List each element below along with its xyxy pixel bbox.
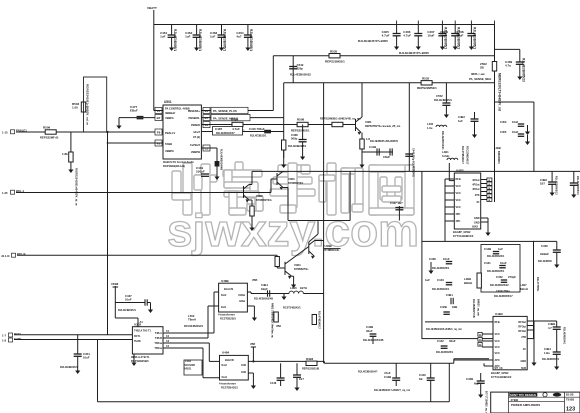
svg-text:1B?: 1B? bbox=[540, 182, 545, 186]
module box top right bbox=[495, 102, 534, 171]
svg-text:10uF: 10uF bbox=[83, 356, 90, 360]
ground C45B bbox=[480, 383, 482, 394]
svg-text:1-8: 1-8 bbox=[2, 339, 6, 343]
capacitor C442 33uF bbox=[436, 339, 456, 354]
svg-text:RCST2B2B/1: RCST2B2B/1 bbox=[220, 317, 236, 321]
svg-text:1B?: 1B? bbox=[299, 377, 304, 381]
svg-text:VCC: VCC bbox=[456, 185, 461, 188]
svg-text:RJL4E4B024/1: RJL4E4B024/1 bbox=[487, 255, 505, 258]
svg-text:270pF: 270pF bbox=[508, 275, 516, 279]
capacitor C43B 33uF bbox=[363, 325, 384, 344]
svg-text:RCC3Z4B343/17: RCC3Z4B343/17 bbox=[466, 146, 469, 165]
capacitor C455 bbox=[500, 130, 524, 136]
wire emitter caps bbox=[362, 151, 393, 153]
svg-text:1BBuF: 1BBuF bbox=[540, 252, 549, 256]
resistor R4B3 bbox=[302, 357, 319, 371]
svg-text:E8: E8 bbox=[205, 123, 209, 127]
svg-text:C41B: C41B bbox=[369, 145, 376, 149]
svg-text:L4B6: L4B6 bbox=[290, 286, 297, 290]
svg-text:RCST2B43/21: RCST2B43/21 bbox=[221, 386, 238, 390]
svg-text:T4Bne: T4Bne bbox=[154, 347, 162, 350]
capacitor C45B bbox=[466, 373, 487, 413]
svg-text:RJL4E4B024/1?+B4B2?_nq_nm: RJL4E4B024/1?+B4B2?_nq_nm bbox=[374, 389, 410, 392]
svg-text:NqF: NqF bbox=[474, 381, 480, 385]
svg-text:R508: R508 bbox=[297, 118, 305, 122]
svg-text:4FOut: 4FOut bbox=[472, 184, 479, 187]
svg-text:U484: U484 bbox=[222, 351, 230, 355]
capacitor C454 bbox=[60, 335, 90, 369]
capacitor C4B1 bbox=[446, 293, 453, 304]
capacitor C464 bbox=[236, 25, 253, 52]
ground C426 bbox=[556, 252, 558, 264]
svg-text:RJL4E4B024/1: RJL4E4B024/1 bbox=[563, 327, 566, 345]
svg-text:V482: V482 bbox=[256, 194, 263, 198]
svg-text:RJL4E3B005+5B+B4B3V: RJL4E3B005+5B+B4B3V bbox=[370, 140, 398, 143]
wire pin C1 down bbox=[201, 147, 217, 149]
svg-text:1B?H: 1B?H bbox=[300, 286, 307, 290]
svg-text:RCTL: RCTL bbox=[14, 332, 22, 336]
svg-text:4-transformer: 4-transformer bbox=[218, 313, 235, 317]
svg-text:REPS22M52/1: REPS22M52/1 bbox=[325, 60, 345, 64]
svg-text:C426: C426 bbox=[541, 244, 548, 248]
svg-text:VCC: VCC bbox=[495, 340, 500, 343]
svg-text:C4B4: C4B4 bbox=[261, 283, 268, 287]
transformer T1 bbox=[218, 279, 247, 321]
svg-text:C455: C455 bbox=[500, 130, 507, 134]
svg-text:C42B: C42B bbox=[440, 305, 447, 309]
svg-text:BGA8P_GPB2: BGA8P_GPB2 bbox=[453, 230, 471, 234]
ground C454 bbox=[77, 356, 79, 370]
svg-text:R506: R506 bbox=[43, 126, 51, 130]
svg-text:VBBFb: VBBFb bbox=[165, 116, 174, 120]
watermark bbox=[172, 162, 414, 215]
svg-text:C8uF: C8uF bbox=[383, 155, 390, 159]
title block bbox=[491, 392, 580, 413]
capacitor C552 bbox=[434, 83, 452, 118]
svg-text:RJL4E3B005/23: RJL4E3B005/23 bbox=[521, 58, 525, 82]
svg-text:C487: C487 bbox=[215, 127, 223, 131]
svg-text:T8mH: T8mH bbox=[188, 318, 196, 322]
resistor R508 bbox=[291, 118, 310, 133]
svg-text:RJL4E4B024/1B+B4B2r_nq_nm: RJL4E4B024/1B+B4B2r_nq_nm bbox=[426, 328, 462, 331]
wire BKL1 bbox=[16, 192, 244, 194]
svg-text:2TB: 2TB bbox=[475, 194, 480, 197]
svg-text:C447 1B?: C447 1B? bbox=[390, 201, 403, 205]
capacitor C445 on V409 bbox=[405, 148, 414, 178]
svg-text:1uF: 1uF bbox=[185, 35, 191, 39]
svg-text:C4B4: C4B4 bbox=[544, 347, 551, 351]
wire U403 right pins bbox=[527, 321, 534, 354]
capacitor C44B 47uF bbox=[358, 363, 400, 386]
svg-text:C44B: C44B bbox=[484, 247, 491, 251]
pin E8 U501 bbox=[203, 122, 210, 128]
svg-text:R535: R535 bbox=[330, 50, 338, 54]
svg-text:10uF: 10uF bbox=[427, 34, 434, 38]
svg-text:RJL4E4B025/22: RJL4E4B025/22 bbox=[490, 284, 509, 287]
svg-text:33uF: 33uF bbox=[366, 329, 373, 333]
pads U402 right bbox=[481, 178, 492, 202]
svg-text:RJL4E3B005/1: RJL4E3B005/1 bbox=[198, 29, 202, 51]
svg-text:VBBPA: VBBPA bbox=[165, 149, 174, 153]
svg-text:L503: L503 bbox=[185, 359, 191, 363]
wire T1 out top bbox=[247, 291, 251, 293]
svg-text:Dot2: Dot2 bbox=[221, 294, 227, 297]
svg-text:1BB: 1BB bbox=[452, 305, 457, 309]
svg-text:100uF: 100uF bbox=[196, 170, 205, 174]
inductor L503 bbox=[184, 359, 202, 375]
svg-text:123: 123 bbox=[566, 407, 575, 413]
svg-text:VBB: VBB bbox=[252, 279, 257, 282]
svg-text:RJL4E3B23/1: RJL4E3B23/1 bbox=[250, 134, 267, 138]
svg-text:POWER AMPLIFIERS: POWER AMPLIFIERS bbox=[511, 403, 540, 407]
svg-text:InBal: InBal bbox=[239, 300, 245, 303]
svg-text:VB8: VB8 bbox=[276, 325, 281, 328]
svg-text:L4B7: L4B7 bbox=[520, 283, 527, 287]
svg-text:C438: C438 bbox=[429, 257, 436, 261]
svg-text:T4B.A: T4B.A bbox=[155, 332, 162, 335]
resistor R503 bbox=[72, 102, 86, 112]
ground C452a bbox=[474, 126, 476, 135]
svg-text:EBuF: EBuF bbox=[130, 109, 138, 113]
capacitor C4B4 T1 bbox=[254, 283, 273, 301]
svg-text:VCC: VCC bbox=[495, 333, 500, 336]
svg-text:R532: R532 bbox=[422, 77, 430, 81]
svg-text:RJL4E3B005/1: RJL4E3B005/1 bbox=[223, 29, 227, 51]
svg-text:REPS22M52/1: REPS22M52/1 bbox=[417, 86, 437, 90]
svg-text:1uF: 1uF bbox=[425, 278, 430, 282]
svg-text:PBSED: PBSED bbox=[191, 123, 200, 127]
wire F2 bbox=[107, 142, 163, 144]
wire T1 feed 2 bbox=[163, 337, 208, 339]
svg-text:T4Bna: T4Bna bbox=[154, 342, 162, 345]
transistor V482 bbox=[244, 171, 272, 202]
svg-text:C4B8: C4B8 bbox=[540, 178, 547, 182]
svg-text:1.Bu: 1.Bu bbox=[544, 351, 550, 355]
svg-text:TB-BB: TB-BB bbox=[566, 398, 574, 402]
svg-text:B4B2Y_nq_nm: B4B2Y_nq_nm bbox=[477, 299, 480, 316]
wire V421 box link bbox=[421, 171, 423, 241]
ground C468 bbox=[302, 148, 304, 157]
svg-text:RJL4E3B005/1: RJL4E3B005/1 bbox=[473, 27, 477, 49]
resistor R447 bbox=[275, 255, 279, 268]
wire T1 out bottom bbox=[247, 305, 254, 307]
wire H3 rail bbox=[273, 55, 494, 57]
svg-text:PA_SENSE_PLUS: PA_SENSE_PLUS bbox=[213, 109, 237, 113]
svg-text:1-25: 1-25 bbox=[2, 191, 8, 195]
svg-text:RJL4E4B025/1: RJL4E4B025/1 bbox=[118, 308, 136, 312]
svg-text:500p: 500p bbox=[291, 137, 298, 141]
svg-text:TH3N: TH3N bbox=[134, 340, 141, 343]
svg-text:RCC324B: RCC324B bbox=[184, 364, 195, 367]
resistor R484 bbox=[226, 118, 245, 133]
svg-text:PBSENS+: PBSENS+ bbox=[188, 109, 201, 113]
svg-text:BHLVR: BHLVR bbox=[225, 358, 234, 362]
capacitor C41C bbox=[383, 148, 392, 159]
svg-text:bEuT: bEuT bbox=[194, 130, 201, 134]
resistor R507 1.8k bbox=[62, 132, 79, 206]
transistor V483 bbox=[244, 171, 304, 192]
svg-text:VCC: VCC bbox=[456, 192, 461, 195]
svg-text:U4B2: U4B2 bbox=[456, 169, 464, 173]
svg-text:220p: 220p bbox=[297, 66, 304, 70]
wire V350 up bbox=[349, 171, 351, 220]
IC U302 bbox=[131, 323, 163, 364]
svg-text:L400: L400 bbox=[427, 122, 434, 126]
svg-text:4-transformer: 4-transformer bbox=[219, 382, 236, 386]
svg-text:4FOut: 4FOut bbox=[472, 179, 479, 182]
svg-text:V481: V481 bbox=[365, 120, 372, 124]
svg-text:4C: 4C bbox=[523, 348, 526, 351]
svg-text:R4B2 (TB8R24B)+14mOhm_nu: R4B2 (TB8R24B)+14mOhm_nu bbox=[271, 303, 274, 338]
ground U302 bbox=[133, 354, 135, 363]
inductor L4BB2 bbox=[494, 146, 501, 165]
capacitor C44B top bbox=[484, 247, 505, 258]
svg-text:RJL4E4B4T/4T+B005: RJL4E4B4T/4T+B005 bbox=[358, 39, 388, 43]
ground T1 wire bbox=[283, 294, 285, 297]
svg-text:RCST24B343/1: RCST24B343/1 bbox=[283, 307, 301, 310]
label C487 bbox=[213, 127, 243, 136]
resistor R532 bbox=[417, 77, 437, 91]
capacitor C461 bbox=[160, 25, 177, 52]
svg-text:4u7: 4u7 bbox=[236, 35, 242, 39]
wire P4 bbox=[201, 131, 283, 133]
svg-text:RFIn: RFIn bbox=[456, 178, 462, 181]
svg-text:B4B1B4B/1: B4B1B4B/1 bbox=[497, 151, 500, 165]
svg-text:MBRS130LT3+B4B3V_nd: MBRS130LT3+B4B3V_nd bbox=[497, 73, 501, 111]
svg-text:F8: F8 bbox=[157, 131, 161, 135]
zener Z502 bbox=[469, 62, 501, 111]
svg-text:VBBPB: VBBPB bbox=[191, 150, 200, 154]
ground C453 bbox=[527, 125, 529, 132]
svg-text:PBALLV: PBALLV bbox=[165, 131, 175, 135]
svg-text:4PC: 4PC bbox=[456, 213, 461, 216]
svg-text:C443: C443 bbox=[437, 278, 444, 282]
svg-text:10nF: 10nF bbox=[125, 298, 132, 302]
wire TH3N bbox=[14, 339, 132, 341]
pin C1 U501 bbox=[203, 145, 210, 151]
pin B7 U501 bbox=[155, 115, 162, 121]
wire P3 drive bbox=[201, 124, 355, 126]
power net VBB T2 bbox=[250, 343, 256, 363]
svg-text:RJL4T4B343/17: RJL4T4B343/17 bbox=[318, 311, 321, 329]
ground V484 emitter bbox=[291, 276, 296, 288]
connector J4.1-N BKLB bbox=[1, 252, 26, 258]
svg-text:RJL4E4B025/1: RJL4E4B025/1 bbox=[432, 267, 450, 270]
svg-text:RFIn: RFIn bbox=[495, 321, 501, 324]
wire U403 RFIn bbox=[425, 321, 493, 323]
capacitor C44C bbox=[374, 363, 435, 402]
inductor L4B6 bbox=[283, 286, 324, 310]
svg-text:APC: APC bbox=[495, 359, 500, 362]
svg-text:R484: R484 bbox=[231, 118, 239, 122]
svg-text:C452: C452 bbox=[496, 275, 503, 279]
wire U403 vcc pins bbox=[478, 333, 493, 348]
svg-text:RCC324B343/21: RCC324B343/21 bbox=[184, 325, 204, 328]
capacitor C438 bbox=[428, 257, 452, 274]
wire U402 to box bbox=[444, 221, 446, 241]
svg-text:PBSENS-: PBSENS- bbox=[188, 116, 200, 120]
inductor L4BB bbox=[464, 273, 481, 288]
svg-text:AT-(k): AT-(k) bbox=[193, 135, 200, 139]
capacitor C469 bbox=[505, 58, 525, 82]
connector 1-25 BKL1 bbox=[2, 189, 25, 195]
wire T2 feed 2 bbox=[163, 347, 203, 349]
svg-text:IN-BUS PA Control Audio: IN-BUS PA Control Audio bbox=[163, 160, 194, 164]
svg-text:C442: C442 bbox=[437, 339, 444, 343]
capacitor C437 bbox=[115, 294, 147, 312]
svg-text:KYT1G1B4B01/2: KYT1G1B4B01/2 bbox=[453, 234, 474, 238]
capacitor C448b bbox=[293, 363, 304, 381]
svg-text:1uF: 1uF bbox=[160, 35, 166, 39]
wire U403 APC bbox=[454, 359, 493, 361]
svg-text:CvPBuT: CvPBuT bbox=[190, 143, 201, 147]
svg-text:U48B: U48B bbox=[221, 279, 230, 283]
wire U402 gnd bbox=[481, 218, 488, 226]
svg-text:REPS2TB2T4+cascade_2B_nm: REPS2TB2T4+cascade_2B_nm bbox=[365, 125, 400, 128]
ground C448b bbox=[296, 377, 298, 387]
capacitor C463 bbox=[210, 25, 227, 52]
svg-text:C45B: C45B bbox=[466, 377, 473, 381]
svg-text:1-7: 1-7 bbox=[2, 334, 6, 338]
svg-text:Out1: Out1 bbox=[222, 376, 228, 379]
svg-text:1BmH: 1BmH bbox=[520, 287, 528, 291]
svg-text:BYNBB2T3/+: BYNBB2T3/+ bbox=[294, 268, 309, 271]
module box PA match bbox=[422, 241, 534, 338]
svg-text:RJL4E4B024/4B: RJL4E4B024/4B bbox=[219, 149, 223, 170]
wire pin B7 to C477 bbox=[119, 117, 155, 119]
svg-text:1.00: 1.00 bbox=[72, 106, 78, 110]
svg-text:RJL4E4B025/1: RJL4E4B025/1 bbox=[487, 270, 505, 273]
svg-text:OnB: OnB bbox=[241, 364, 246, 367]
capacitor C431 bbox=[484, 261, 507, 273]
svg-text:22uF: 22uF bbox=[456, 34, 463, 38]
svg-text:C416 700uF: C416 700uF bbox=[249, 127, 265, 131]
wire rail A riser bbox=[453, 359, 455, 364]
svg-text:1BqF: 1BqF bbox=[261, 287, 268, 291]
capacitor C418 polar bbox=[215, 149, 224, 170]
svg-text:C45B 25Bp: C45B 25Bp bbox=[496, 289, 510, 293]
svg-text:sjwxzy.com: sjwxzy.com bbox=[167, 205, 419, 256]
svg-text:10nF: 10nF bbox=[443, 257, 450, 261]
svg-text:RJL4E3B005/1: RJL4E3B005/1 bbox=[173, 29, 177, 51]
svg-text:RJL4E4B024/47: RJL4E4B024/47 bbox=[216, 132, 235, 135]
svg-text:VBATT: VBATT bbox=[147, 6, 157, 10]
wire VFB8 to A1 bbox=[115, 317, 138, 319]
svg-text:C4B2: C4B2 bbox=[458, 115, 465, 119]
ground C477 bbox=[118, 118, 120, 126]
pin F8 U501 bbox=[155, 129, 162, 135]
ground C4B9 bbox=[573, 185, 575, 194]
svg-text:SUB: SUB bbox=[521, 368, 526, 370]
svg-text:1.0u: 1.0u bbox=[427, 126, 433, 130]
svg-text:4FOut: 4FOut bbox=[472, 188, 479, 191]
svg-text:C445 220p RJL4E3B24/1: C445 220p RJL4E3B24/1 bbox=[412, 148, 415, 178]
capacitor C4BB right bbox=[534, 321, 566, 345]
wire V97 bbox=[97, 340, 99, 402]
svg-text:1-15: 1-15 bbox=[2, 130, 8, 134]
svg-text:VCC: VCC bbox=[456, 199, 461, 202]
ground C437 bbox=[147, 303, 153, 314]
inductor L400 bbox=[427, 122, 447, 150]
svg-text:B??1T1B4B2/_nq_nm: B??1T1B4B2/_nq_nm bbox=[484, 391, 487, 413]
svg-text:BGA8P_GPB2: BGA8P_GPB2 bbox=[491, 371, 509, 375]
wire U402 left pins bbox=[445, 179, 454, 221]
svg-text:BYNBB1G3/+: BYNBB1G3/+ bbox=[325, 249, 341, 252]
svg-text:U501: U501 bbox=[164, 100, 172, 104]
svg-text:RCTL: RCTL bbox=[134, 335, 141, 338]
resistor R536 bbox=[320, 117, 361, 127]
capacitor C4B4 bbox=[542, 329, 561, 361]
svg-text:1uF: 1uF bbox=[498, 247, 503, 251]
wire bus right corner bbox=[494, 25, 496, 172]
power net VFB8 bbox=[111, 282, 119, 318]
wire T1 feed 1 bbox=[163, 332, 214, 334]
pin E7 U501 bbox=[203, 115, 210, 121]
inductor L4B7 bbox=[520, 277, 539, 292]
label rotated box texts bbox=[426, 299, 480, 331]
connector 1-8 TH3N bbox=[2, 337, 21, 343]
svg-text:RJL4E3B005/13: RJL4E3B005/13 bbox=[555, 176, 558, 195]
svg-text:C4B1: C4B1 bbox=[446, 293, 453, 297]
svg-text:343/21: 343/21 bbox=[184, 368, 192, 371]
wire V483 emitter down bbox=[283, 187, 288, 189]
svg-text:10uF: 10uF bbox=[512, 130, 519, 134]
svg-text:GND: GND bbox=[474, 222, 480, 225]
resistor R4E emitter bbox=[360, 133, 371, 153]
capacitor C467 bbox=[427, 25, 447, 51]
wire PA_SENSE_PLUS bbox=[201, 110, 273, 112]
ground T1 bottom bbox=[253, 306, 255, 318]
resistor R4B5 bbox=[312, 311, 320, 329]
wire rail A bbox=[324, 362, 453, 364]
svg-text:RJL4E3B005/13: RJL4E3B005/13 bbox=[576, 176, 579, 195]
svg-text:1uF: 1uF bbox=[210, 35, 216, 39]
pin 15 U501 bbox=[155, 108, 162, 114]
svg-text:RJL4E3B2B5/1: RJL4E3B2B5/1 bbox=[288, 144, 307, 148]
pin E6 U501 bbox=[203, 108, 210, 114]
svg-text:REPS22MF+B: REPS22MF+B bbox=[40, 136, 58, 140]
wire Y220 bbox=[288, 220, 350, 222]
svg-text:BALUN: BALUN bbox=[224, 287, 233, 291]
svg-text:RGP1B1B(B14+B): RGP1B1B(B14+B) bbox=[163, 164, 185, 168]
svg-text:RJL4E3B005/32: RJL4E3B005/32 bbox=[290, 73, 311, 77]
svg-text:PA_SENSE_NEG: PA_SENSE_NEG bbox=[469, 77, 491, 81]
capacitor C466 bbox=[403, 25, 422, 51]
svg-text:RGRS2241/B1+B4B3V_id_m: RGRS2241/B1+B4B3V_id_m bbox=[75, 168, 79, 206]
ground V6 bbox=[283, 150, 285, 165]
svg-text:RJL4E3B00: RJL4E3B00 bbox=[538, 260, 552, 263]
svg-text:U302: U302 bbox=[134, 323, 142, 327]
svg-text:C4BB: C4BB bbox=[548, 322, 555, 326]
wire long Y171 bbox=[252, 170, 580, 172]
inductor L401 bbox=[442, 146, 469, 165]
svg-text:J4.1-N: J4.1-N bbox=[1, 254, 9, 258]
capacitor C549 bbox=[289, 56, 311, 83]
svg-text:4.7u: 4.7u bbox=[505, 64, 511, 68]
wire PABLE1 bbox=[16, 131, 163, 133]
resistor V482 emitter bbox=[249, 200, 254, 220]
svg-text:KYT1G1B4B01/2: KYT1G1B4B01/2 bbox=[491, 375, 512, 379]
svg-text:VFB8: VFB8 bbox=[111, 282, 119, 286]
svg-text:RJL4B3B22Y/1B: RJL4B3B22Y/1B bbox=[472, 299, 475, 318]
svg-text:B1-2B: B1-2B bbox=[566, 392, 574, 396]
svg-text:R4B3: R4B3 bbox=[306, 357, 314, 361]
ground U403 right bbox=[533, 354, 535, 363]
svg-text:4PC: 4PC bbox=[456, 220, 461, 223]
capacitor C447 bbox=[390, 201, 403, 221]
svg-text:VCC: VCC bbox=[495, 352, 500, 355]
svg-text:REPS22B51/B: REPS22B51/B bbox=[302, 367, 319, 371]
